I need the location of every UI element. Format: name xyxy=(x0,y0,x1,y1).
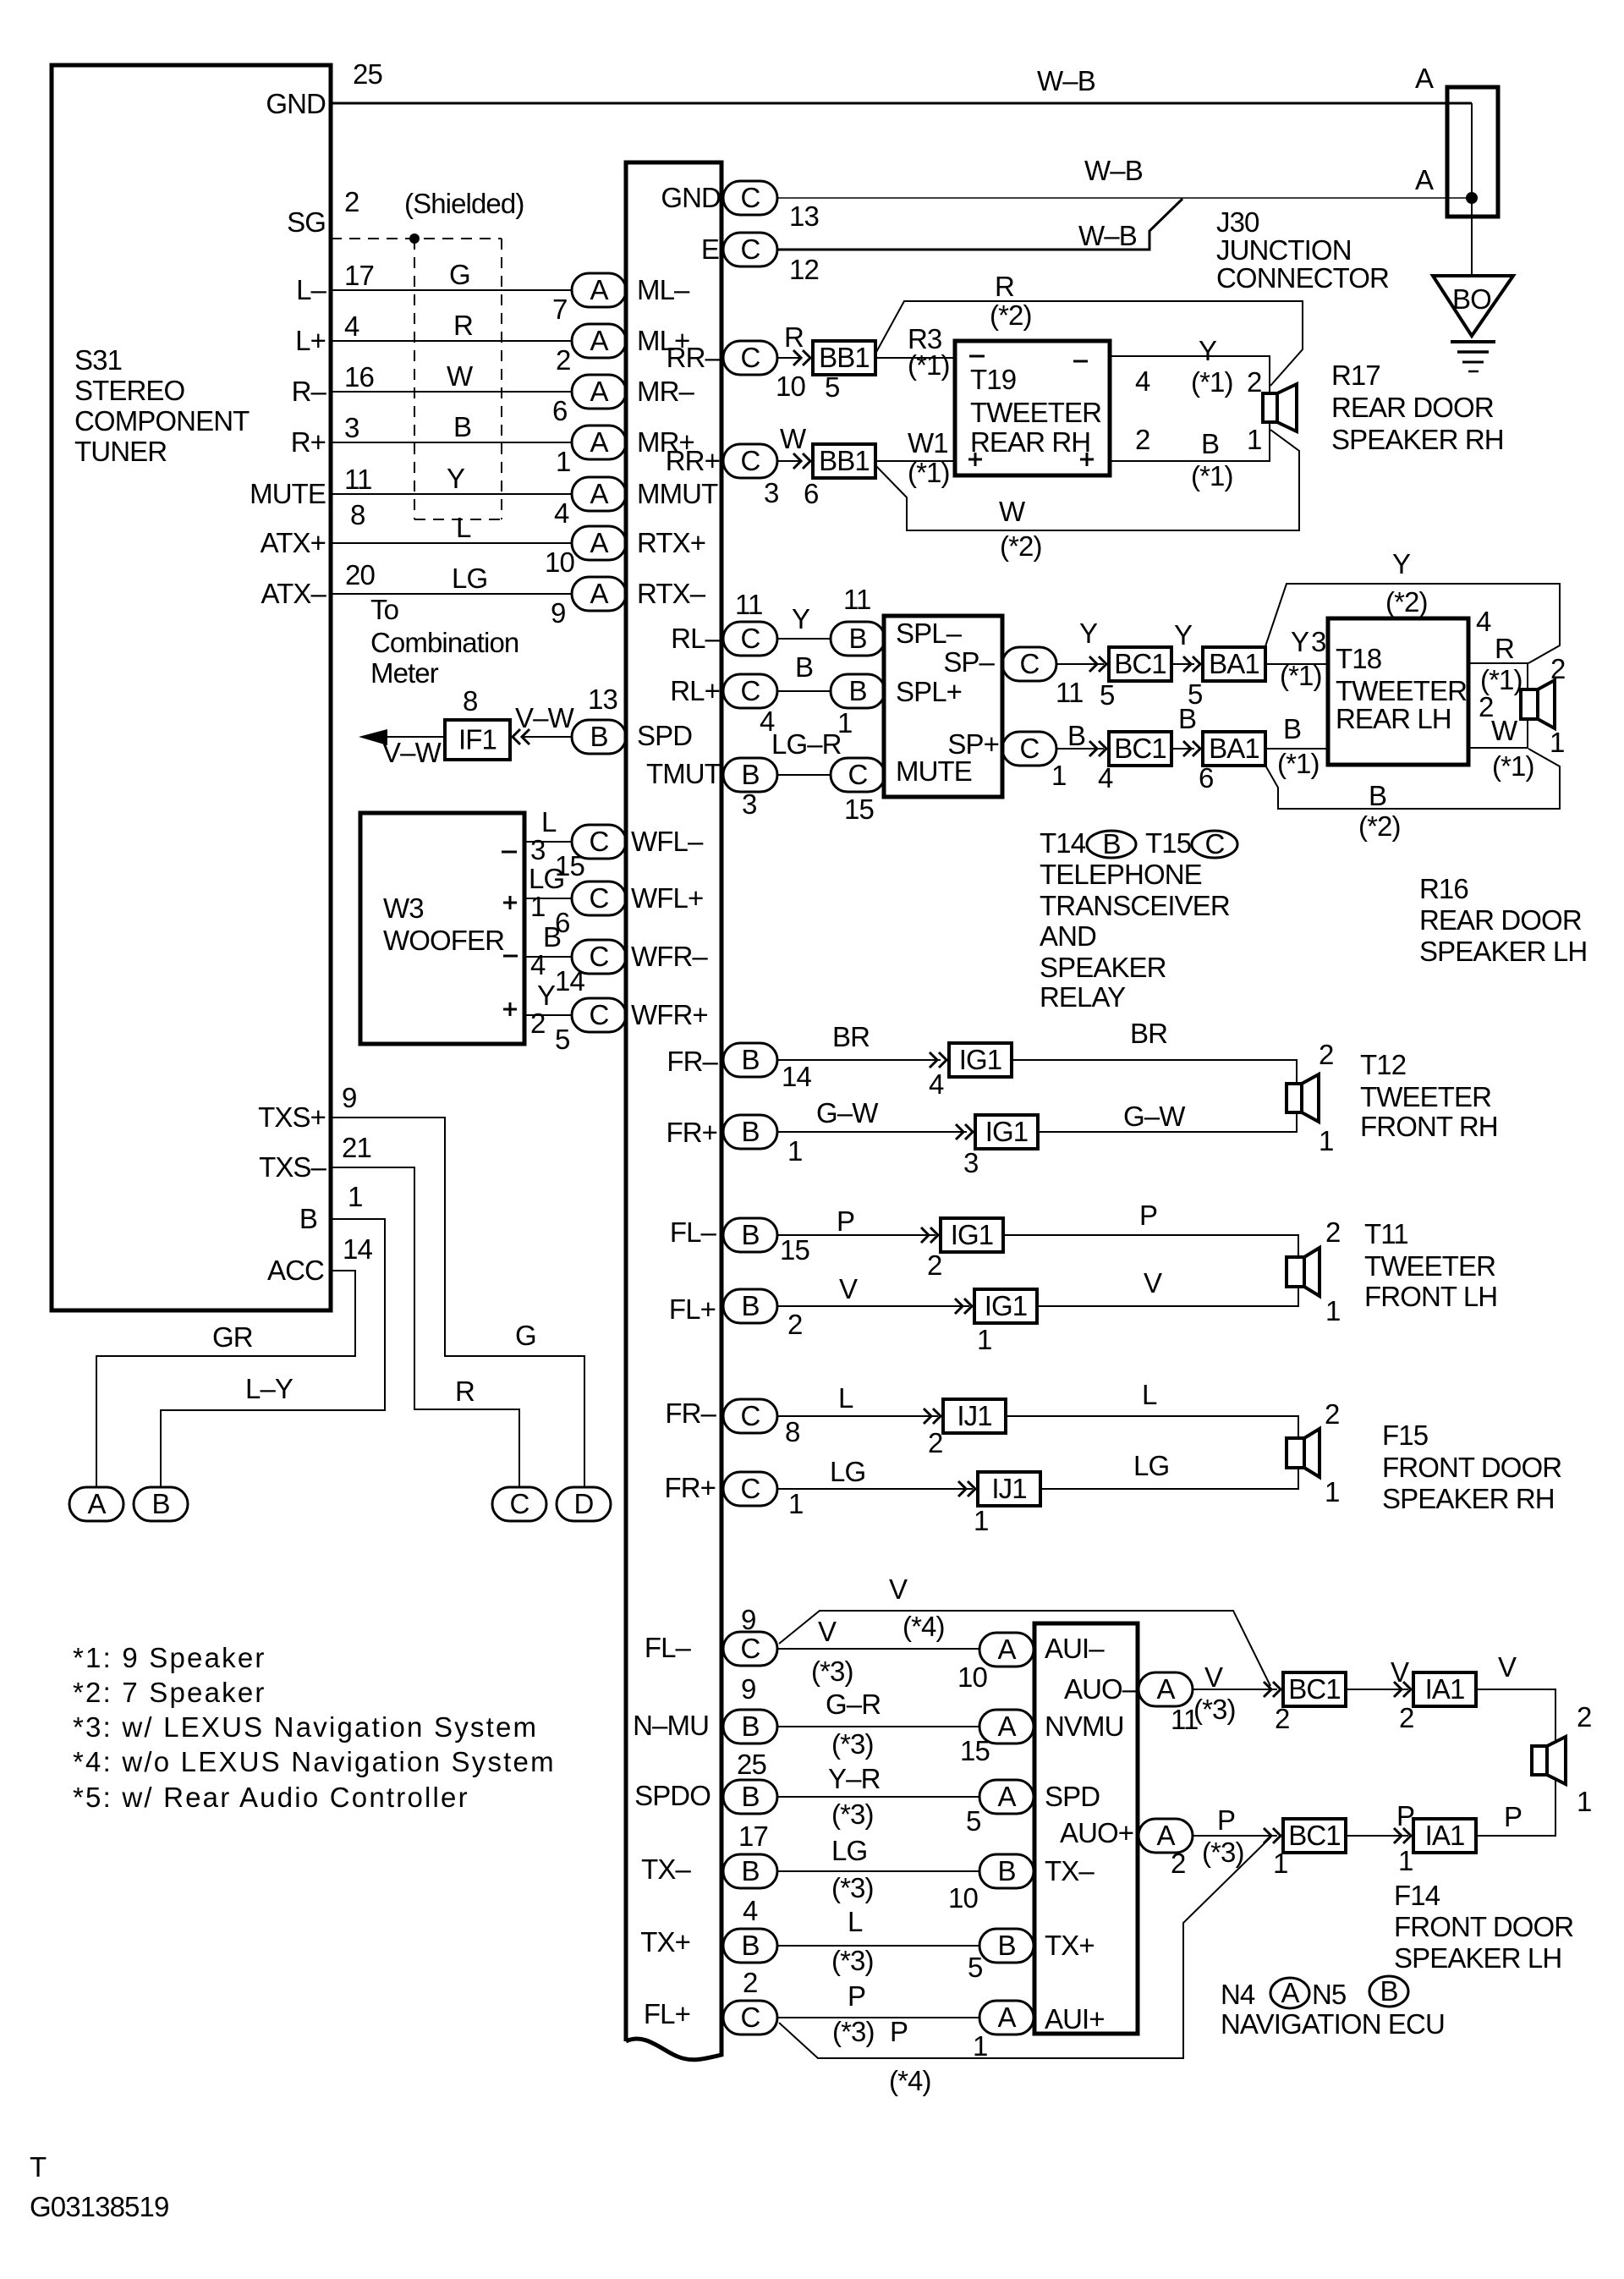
svg-text:B: B xyxy=(741,1855,759,1886)
svg-text:(*3): (*3) xyxy=(831,1798,874,1830)
connector oval A row R– xyxy=(572,375,626,409)
arrow chevron BC1 nav 2 xyxy=(1264,1828,1281,1843)
shield dashed line horizontal xyxy=(331,238,502,239)
svg-text:1: 1 xyxy=(1319,1125,1333,1156)
wire Y to BC1 xyxy=(1056,663,1104,665)
svg-text:C: C xyxy=(741,1473,760,1504)
svg-text:(*2): (*2) xyxy=(990,299,1032,331)
svg-text:C: C xyxy=(741,233,760,265)
svg-text:(*2): (*2) xyxy=(1385,586,1428,618)
wire P (*4) bypass bottom xyxy=(779,1837,1270,2058)
svg-text:2: 2 xyxy=(743,1967,757,1998)
svg-text:T18: T18 xyxy=(1336,643,1381,674)
splice IG1 4 xyxy=(974,1289,1037,1323)
splice BC1 nav 1 xyxy=(1283,1672,1346,1706)
svg-text:11: 11 xyxy=(344,464,371,495)
label T14 T15 TELEPHONE TRANSCEIVER AND SPEAKER RELAY xyxy=(1040,827,1230,1013)
svg-text:REAR RH: REAR RH xyxy=(970,426,1090,458)
svg-text:4: 4 xyxy=(1098,762,1113,794)
svg-text:A: A xyxy=(590,274,608,305)
label To Combination Meter xyxy=(370,594,518,689)
svg-text:B: B xyxy=(1380,1975,1397,2007)
arrow chevron BA1 lower xyxy=(1183,741,1200,756)
wire B to BC1 xyxy=(1056,748,1104,750)
svg-text:B: B xyxy=(997,1930,1015,1961)
svg-text:Y: Y xyxy=(537,980,556,1011)
wire Y3 BA1 to T18 xyxy=(1265,663,1328,665)
svg-text:AUI–: AUI– xyxy=(1045,1633,1105,1664)
svg-text:14: 14 xyxy=(555,965,584,997)
svg-text:G03138519: G03138519 xyxy=(30,2191,168,2222)
svg-text:BC1: BC1 xyxy=(1288,1673,1341,1705)
svg-text:10: 10 xyxy=(948,1882,978,1914)
wire P BC1 to IA1 xyxy=(1345,1835,1408,1837)
svg-text:B: B xyxy=(741,1044,759,1075)
svg-text:B: B xyxy=(741,759,759,790)
svg-text:BB1: BB1 xyxy=(819,342,870,373)
svg-text:V: V xyxy=(818,1616,837,1647)
connector oval D xyxy=(557,1487,611,1521)
svg-text:RR+: RR+ xyxy=(666,445,720,476)
label N4 N5 NAVIGATION ECU xyxy=(1221,1979,1445,2040)
wire Y (*2) bypass T18 xyxy=(1265,584,1560,663)
svg-text:IJ1: IJ1 xyxy=(991,1473,1026,1504)
svg-text:L: L xyxy=(1142,1379,1157,1410)
relay input oval B lower xyxy=(831,674,885,708)
connector oval B FR+ xyxy=(723,1115,777,1149)
svg-text:REAR DOOR: REAR DOOR xyxy=(1331,392,1494,423)
svg-text:B: B xyxy=(543,921,561,953)
woofer polarity marks xyxy=(502,852,518,1016)
svg-text:FRONT DOOR: FRONT DOOR xyxy=(1394,1911,1573,1942)
svg-text:W: W xyxy=(999,496,1026,527)
nav input oval A NVMU xyxy=(979,1710,1034,1744)
svg-text:T: T xyxy=(30,2151,47,2183)
svg-text:BO: BO xyxy=(1452,283,1491,315)
wire to combination meter with arrowhead xyxy=(359,729,445,745)
svg-text:C: C xyxy=(590,941,609,972)
svg-text:25: 25 xyxy=(737,1749,766,1780)
svg-text:ATX–: ATX– xyxy=(261,578,327,609)
svg-text:5: 5 xyxy=(966,1805,980,1837)
splice IA1 2 xyxy=(1413,1819,1476,1853)
svg-text:L: L xyxy=(456,512,471,543)
svg-text:4: 4 xyxy=(554,497,569,529)
svg-text:Combination: Combination xyxy=(370,627,518,658)
svg-text:V: V xyxy=(1204,1661,1223,1693)
connector oval C RL+ xyxy=(723,674,777,708)
label T12 TWEETER FRONT RH xyxy=(1360,1049,1498,1142)
arrow chevron IG1 4 xyxy=(955,1299,972,1314)
label T18 TWEETER REAR LH xyxy=(1336,643,1467,734)
speaker F14 icon xyxy=(1532,1737,1566,1784)
splice IG1 1 xyxy=(949,1043,1012,1077)
svg-text:W: W xyxy=(780,423,807,454)
svg-text:B: B xyxy=(741,1930,759,1961)
svg-text:FR–: FR– xyxy=(667,1046,718,1077)
svg-text:V: V xyxy=(839,1273,858,1304)
svg-text:TX–: TX– xyxy=(1045,1855,1095,1886)
wire Y BC1 to BA1 xyxy=(1171,663,1194,665)
svg-text:TRANSCEIVER: TRANSCEIVER xyxy=(1040,890,1230,921)
svg-text:(*1): (*1) xyxy=(908,457,950,488)
connector oval A row ATX– xyxy=(572,577,626,611)
svg-text:1: 1 xyxy=(348,1181,362,1212)
connector oval B TX+ xyxy=(723,1929,777,1963)
svg-text:L+: L+ xyxy=(295,325,326,356)
svg-text:C: C xyxy=(1020,733,1040,764)
svg-text:RELAY: RELAY xyxy=(1040,981,1126,1013)
svg-text:11: 11 xyxy=(843,584,870,615)
svg-text:5: 5 xyxy=(1100,679,1114,711)
svg-text:B: B xyxy=(741,1116,759,1147)
splice BA1 upper xyxy=(1203,647,1265,681)
nav block pin labels xyxy=(1045,1633,1138,2035)
splice IJ1 2 xyxy=(978,1472,1040,1506)
svg-text:1: 1 xyxy=(1577,1786,1591,1817)
svg-text:RTX–: RTX– xyxy=(637,578,706,609)
svg-text:3: 3 xyxy=(963,1147,978,1178)
svg-text:C: C xyxy=(741,342,760,373)
svg-text:P: P xyxy=(1217,1804,1235,1836)
wire G-W to T12 speaker xyxy=(1037,1112,1297,1132)
svg-text:F14: F14 xyxy=(1394,1880,1440,1911)
wire R3 from BB1 to T19 xyxy=(875,357,955,359)
speaker R17 icon xyxy=(1263,384,1297,431)
svg-text:1: 1 xyxy=(1051,760,1066,791)
svg-text:(*2): (*2) xyxy=(1358,810,1401,842)
svg-text:FL–: FL– xyxy=(645,1632,692,1663)
wire P to F14 speaker xyxy=(1477,1780,1555,1836)
woofer W3 box xyxy=(360,813,524,1044)
svg-text:1: 1 xyxy=(788,1488,803,1519)
svg-text:A: A xyxy=(590,325,608,356)
connector ellipse C T15 xyxy=(1192,828,1237,859)
svg-text:C: C xyxy=(741,675,760,706)
svg-text:SPDO: SPDO xyxy=(634,1780,710,1811)
svg-text:W3: W3 xyxy=(383,892,424,924)
svg-text:BC1: BC1 xyxy=(1114,648,1166,679)
label F15 FRONT DOOR SPEAKER RH xyxy=(1382,1420,1561,1514)
svg-text:B: B xyxy=(453,411,471,442)
svg-text:2: 2 xyxy=(1325,1216,1340,1248)
svg-text:10: 10 xyxy=(957,1661,987,1693)
svg-text:(*2): (*2) xyxy=(1000,530,1042,562)
svg-text:CONNECTOR: CONNECTOR xyxy=(1216,262,1389,294)
nav input oval B TX+ xyxy=(979,1929,1034,1963)
svg-text:R16: R16 xyxy=(1419,873,1468,904)
svg-text:GR: GR xyxy=(212,1321,253,1353)
svg-text:L–: L– xyxy=(296,274,326,305)
svg-text:4: 4 xyxy=(743,1895,758,1926)
svg-text:S31: S31 xyxy=(74,344,122,376)
svg-text:B: B xyxy=(1201,428,1219,459)
svg-text:N4: N4 xyxy=(1221,1979,1255,2010)
svg-text:C: C xyxy=(741,182,760,213)
wire B from S31 xyxy=(161,1219,385,1487)
speaker F15 icon xyxy=(1287,1429,1319,1477)
shield junction dot xyxy=(409,233,420,244)
svg-text:IA1: IA1 xyxy=(1425,1820,1465,1851)
svg-text:Y: Y xyxy=(1392,548,1411,579)
arrow chevron IG1 3 xyxy=(921,1227,938,1243)
arrow chevron IG1 1 xyxy=(930,1052,946,1068)
svg-text:A: A xyxy=(590,578,608,609)
svg-text:2: 2 xyxy=(927,1249,941,1281)
wire R from T18 to speaker xyxy=(1468,663,1528,689)
svg-text:B: B xyxy=(1283,713,1301,744)
svg-text:FRONT LH: FRONT LH xyxy=(1364,1281,1497,1312)
svg-text:8: 8 xyxy=(463,685,477,717)
svg-text:1: 1 xyxy=(974,1505,988,1536)
T19 polarity marks xyxy=(968,356,1094,466)
svg-text:3: 3 xyxy=(764,477,778,508)
svg-text:V: V xyxy=(1144,1267,1162,1299)
svg-text:2: 2 xyxy=(928,1427,942,1458)
svg-text:G–W: G–W xyxy=(1123,1101,1186,1132)
svg-text:B: B xyxy=(848,623,866,654)
svg-text:LG: LG xyxy=(1133,1450,1169,1481)
svg-text:6: 6 xyxy=(552,395,567,426)
svg-text:B: B xyxy=(1178,703,1196,734)
svg-text:T11: T11 xyxy=(1364,1218,1408,1249)
svg-text:B: B xyxy=(1369,780,1386,811)
svg-text:*4: w/o LEXUS Navigation Syste: *4: w/o LEXUS Navigation System xyxy=(73,1746,556,1777)
arrow chevron BB1 upper xyxy=(793,350,810,365)
svg-text:(*1): (*1) xyxy=(1191,366,1233,398)
connector oval C WFL– xyxy=(572,825,626,859)
svg-text:C: C xyxy=(590,826,609,857)
wire V (*4) bypass top xyxy=(779,1611,1270,1686)
svg-text:RL+: RL+ xyxy=(670,675,720,706)
wire BR to T12 speaker xyxy=(1012,1060,1297,1084)
svg-text:To: To xyxy=(370,594,398,625)
wire L to F15 speaker xyxy=(1007,1416,1298,1438)
wire Y-R to nav xyxy=(776,1796,979,1798)
svg-text:9: 9 xyxy=(741,1604,755,1635)
label T11 TWEETER FRONT LH xyxy=(1364,1218,1497,1312)
wire ATX– (LG) from S31 to connector A xyxy=(331,593,572,595)
svg-text:1: 1 xyxy=(530,891,545,922)
svg-text:W–B: W–B xyxy=(1078,220,1137,251)
svg-text:MUTE: MUTE xyxy=(250,478,326,509)
svg-text:A: A xyxy=(590,376,608,407)
svg-text:3: 3 xyxy=(344,412,359,443)
svg-text:Y: Y xyxy=(447,463,465,494)
wire W (*2) bypass xyxy=(875,430,1299,530)
svg-text:*2: 7 Speaker: *2: 7 Speaker xyxy=(73,1677,266,1708)
svg-text:IG1: IG1 xyxy=(959,1044,1002,1075)
svg-text:A: A xyxy=(1156,1673,1175,1705)
svg-text:FR–: FR– xyxy=(665,1398,716,1429)
svg-text:R: R xyxy=(455,1376,475,1407)
svg-text:(*3): (*3) xyxy=(832,2016,875,2047)
svg-text:STEREO: STEREO xyxy=(74,375,185,406)
wire LG-R to relay xyxy=(776,774,831,776)
connector oval C WFR+ xyxy=(572,998,626,1032)
svg-text:R: R xyxy=(1495,633,1514,664)
svg-text:1: 1 xyxy=(1325,1476,1339,1507)
svg-text:T19: T19 xyxy=(970,364,1016,395)
legend notes *1-*5 xyxy=(73,1642,556,1813)
connector ellipse B T14 xyxy=(1087,828,1136,859)
svg-text:C: C xyxy=(741,1400,760,1431)
svg-text:1: 1 xyxy=(1325,1295,1340,1326)
svg-text:BR: BR xyxy=(1130,1018,1167,1049)
svg-text:G: G xyxy=(449,259,470,290)
label Y3 xyxy=(1291,626,1325,657)
label S31 STEREO COMPONENT TUNER xyxy=(74,344,250,467)
svg-text:1: 1 xyxy=(556,446,570,477)
svg-text:A: A xyxy=(1415,63,1434,94)
speaker T11 icon xyxy=(1287,1248,1319,1296)
svg-text:C: C xyxy=(848,759,868,790)
svg-text:10: 10 xyxy=(776,371,805,402)
svg-text:15: 15 xyxy=(780,1234,809,1266)
svg-text:IJ1: IJ1 xyxy=(957,1400,991,1431)
svg-text:2: 2 xyxy=(1171,1848,1185,1879)
svg-text:L–Y: L–Y xyxy=(245,1373,294,1404)
svg-text:TWEETER: TWEETER xyxy=(1360,1081,1491,1112)
svg-text:A: A xyxy=(1415,164,1434,195)
connector ellipse B N5 xyxy=(1369,1975,1408,2007)
svg-text:A: A xyxy=(997,1781,1016,1812)
tweeter T18 box xyxy=(1328,618,1468,765)
svg-text:P: P xyxy=(1396,1800,1414,1831)
navigation audio block box xyxy=(1034,1623,1138,2034)
svg-text:1: 1 xyxy=(1550,727,1564,758)
svg-text:R–: R– xyxy=(292,376,327,407)
splice IA1 1 xyxy=(1413,1672,1476,1706)
connector oval B FR- xyxy=(723,1043,777,1077)
svg-text:B: B xyxy=(997,1855,1015,1886)
svg-text:13: 13 xyxy=(588,684,617,715)
svg-text:A: A xyxy=(590,426,608,458)
connector oval C FL+ bottom xyxy=(723,2001,777,2035)
splice BC1 lower xyxy=(1109,732,1171,766)
svg-text:11: 11 xyxy=(1056,677,1083,708)
svg-text:SPEAKER RH: SPEAKER RH xyxy=(1331,424,1504,455)
arrow chevron IJ1 2 xyxy=(958,1481,975,1496)
connector oval A row ATX+ xyxy=(572,526,626,560)
splice IJ1 1 xyxy=(943,1399,1006,1433)
svg-text:25: 25 xyxy=(353,58,382,90)
svg-text:REAR DOOR: REAR DOOR xyxy=(1419,904,1582,936)
connector oval C WFL+ xyxy=(572,881,626,915)
svg-text:GND: GND xyxy=(661,182,721,213)
wire LG to IJ1 xyxy=(776,1488,973,1490)
svg-text:2: 2 xyxy=(1399,1702,1413,1733)
connector oval B TX- xyxy=(723,1854,777,1888)
svg-text:2: 2 xyxy=(1275,1703,1289,1734)
svg-text:3: 3 xyxy=(530,834,545,865)
wire B from T19 to speaker xyxy=(1110,422,1270,461)
wire Y from T19 to speaker xyxy=(1110,356,1270,393)
svg-text:R: R xyxy=(453,310,473,341)
svg-text:TWEETER: TWEETER xyxy=(1364,1250,1495,1282)
wire ACC from S31 xyxy=(96,1271,355,1487)
svg-text:B: B xyxy=(741,1781,759,1812)
svg-text:R+: R+ xyxy=(291,426,326,458)
label J30 JUNCTION CONNECTOR xyxy=(1216,206,1389,294)
svg-text:WFL–: WFL– xyxy=(631,826,704,857)
stereo component tuner S31 box xyxy=(52,65,331,1310)
svg-text:G: G xyxy=(515,1320,536,1351)
svg-text:12: 12 xyxy=(789,254,819,285)
svg-text:6: 6 xyxy=(1199,762,1213,794)
svg-text:V: V xyxy=(889,1573,908,1605)
svg-text:IA1: IA1 xyxy=(1425,1673,1465,1705)
svg-text:MUTE: MUTE xyxy=(896,755,972,787)
connector oval A row L– xyxy=(572,273,626,307)
telephone transceiver and speaker relay box xyxy=(884,616,1002,797)
nav input oval B TX- xyxy=(979,1854,1034,1888)
svg-text:P: P xyxy=(890,2016,908,2047)
svg-text:NAVIGATION ECU: NAVIGATION ECU xyxy=(1221,2008,1445,2040)
svg-text:RTX+: RTX+ xyxy=(637,527,705,558)
svg-text:C: C xyxy=(590,882,609,914)
svg-text:W–B: W–B xyxy=(1037,65,1095,96)
connector oval A row MUTE xyxy=(572,477,626,511)
svg-text:T14: T14 xyxy=(1040,827,1086,859)
connector oval B N-MU xyxy=(723,1710,777,1744)
arrow chevron IA1 2 xyxy=(1394,1828,1411,1843)
svg-text:G–R: G–R xyxy=(826,1689,881,1720)
svg-text:(*3): (*3) xyxy=(831,1872,874,1903)
wire G-W to IG1 xyxy=(776,1131,967,1133)
svg-text:TELEPHONE: TELEPHONE xyxy=(1040,859,1202,890)
svg-text:SPL–: SPL– xyxy=(896,618,963,649)
svg-text:20: 20 xyxy=(345,559,375,590)
svg-text:C: C xyxy=(590,999,609,1030)
wire B (*2) bypass T18 xyxy=(1265,749,1560,809)
svg-text:W: W xyxy=(447,360,474,392)
svg-text:A: A xyxy=(1281,1977,1299,2008)
connector oval B xyxy=(134,1487,188,1521)
svg-text:15: 15 xyxy=(844,794,874,825)
connector oval B SPD xyxy=(572,720,626,754)
speaker R16 icon xyxy=(1521,680,1555,728)
svg-text:C: C xyxy=(741,445,760,476)
shield dashed bottom xyxy=(414,519,502,520)
wire B BC1 to BA1 xyxy=(1171,748,1194,750)
svg-text:(*1): (*1) xyxy=(1191,460,1233,491)
svg-text:2: 2 xyxy=(1319,1039,1333,1070)
svg-text:TX+: TX+ xyxy=(640,1926,690,1958)
svg-text:T12: T12 xyxy=(1360,1049,1406,1080)
svg-text:(Shielded): (Shielded) xyxy=(404,188,524,219)
svg-text:1: 1 xyxy=(1398,1845,1413,1876)
wire W to BB1 xyxy=(776,460,802,462)
svg-text:W–B: W–B xyxy=(1084,155,1143,186)
ground bars xyxy=(1451,342,1495,371)
connector oval B FL+ xyxy=(723,1289,777,1323)
svg-text:1: 1 xyxy=(973,2030,987,2062)
wire B BA1 to T18 xyxy=(1265,748,1328,750)
splice IG1 2 xyxy=(975,1115,1038,1149)
svg-text:4: 4 xyxy=(1135,365,1150,397)
svg-text:B: B xyxy=(848,675,866,706)
svg-text:SPEAKER LH: SPEAKER LH xyxy=(1419,936,1587,967)
svg-text:9: 9 xyxy=(342,1082,356,1113)
wire LG to F15 speaker xyxy=(1041,1468,1298,1489)
connector oval B FL- xyxy=(723,1218,777,1252)
relay input oval B upper xyxy=(831,622,885,656)
svg-text:P: P xyxy=(837,1205,854,1237)
svg-text:IG1: IG1 xyxy=(985,1116,1029,1147)
wire TXS- from S31 xyxy=(331,1167,519,1487)
svg-text:A: A xyxy=(997,1711,1016,1742)
